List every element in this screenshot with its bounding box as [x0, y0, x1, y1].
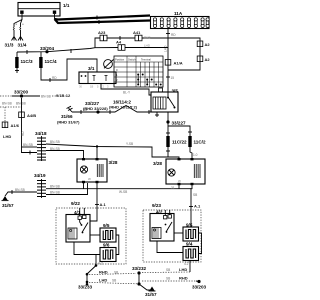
wire relay 4/2 bottom to 9/4 [157, 241, 183, 253]
svg-text:SB: SB [166, 268, 170, 272]
light switch 3/1 [79, 66, 116, 89]
svg-text:Switch: Switch [128, 58, 136, 62]
wire box B pin2 down (net A1 right) [189, 185, 201, 227]
svg-text:A2: A2 [205, 42, 211, 47]
svg-text:A.2: A.2 [98, 262, 103, 266]
svg-text:9/5: 9/5 [103, 223, 110, 228]
svg-text:15: 15 [171, 76, 175, 80]
svg-text:A41: A41 [133, 30, 141, 35]
svg-text:11A: 11A [174, 11, 183, 16]
svg-text:A4: A4 [116, 40, 122, 45]
wire BN-SB dashed row left [0, 98, 26, 112]
svg-text:W-SB: W-SB [119, 190, 127, 194]
svg-text:31: 31 [171, 186, 175, 190]
dashed module 9/22 [56, 201, 126, 264]
wire relay 4/1 to 9/5 left [90, 234, 100, 236]
connector A2 upper [197, 41, 210, 47]
svg-text:33/232: 33/232 [132, 266, 146, 271]
fuses [153, 18, 209, 28]
wire switch 3/1 to relay coil (BL-Y) [101, 83, 152, 95]
ground 31/66 [57, 106, 80, 124]
warning lamp box B 3/28 [153, 158, 205, 185]
svg-text:A1/A: A1/A [174, 61, 183, 66]
wire relay 4/2 to 9/5 right [174, 232, 183, 234]
svg-text:RD: RD [171, 33, 176, 37]
svg-text:BN-SB: BN-SB [23, 143, 33, 147]
relay 4/2 [150, 210, 174, 242]
svg-text:RD: RD [52, 76, 57, 80]
lamp symbol [168, 169, 175, 176]
svg-text:9/4: 9/4 [186, 242, 193, 247]
svg-text:31/3: 31/3 [5, 43, 14, 48]
wire 33/200 row [0, 93, 71, 99]
svg-text:34/18: 34/18 [35, 131, 47, 136]
connector A23 [98, 30, 107, 41]
wire box A pin to 34/19 (lower) [46, 183, 88, 195]
svg-text:A1/6: A1/6 [11, 123, 20, 128]
svg-text:LHD: LHD [99, 277, 107, 282]
svg-text:9/6: 9/6 [103, 243, 110, 248]
bars element [194, 164, 200, 178]
svg-text:BN-SB: BN-SB [2, 102, 12, 106]
svg-text:31/57: 31/57 [145, 292, 157, 297]
wire fuse output RD down [164, 29, 177, 52]
node 33/204 [40, 46, 54, 53]
svg-text:1.0: 1.0 [193, 153, 198, 157]
svg-text:4.2: 4.2 [184, 262, 189, 266]
svg-text:SB: SB [114, 271, 118, 275]
svg-text:A2: A2 [205, 57, 211, 62]
lamp symbol [80, 166, 87, 173]
heated element 9/6 left [100, 243, 116, 262]
dashed row left RHD [89, 269, 136, 274]
relay coil bottom stub [155, 112, 159, 117]
ground 31/57 bottom [139, 284, 157, 297]
svg-text:3/28: 3/28 [109, 160, 118, 165]
wire battery feed to fuse box (thick) [55, 14, 151, 24]
svg-text:A.1: A.1 [100, 202, 107, 207]
wire node to 11C/2 branch [168, 126, 192, 136]
connector A4/B [19, 112, 37, 118]
svg-text:BN-SB: BN-SB [41, 95, 51, 99]
svg-text:LHD: LHD [179, 267, 187, 272]
relay 3/5 [151, 88, 178, 112]
dashed row right RHD [142, 276, 196, 282]
wire 9/4 bottom down [184, 261, 190, 273]
ground 31/4 [18, 37, 27, 48]
wire T-drop to box A pin2 [96, 147, 98, 160]
svg-text:33/233: 33/233 [78, 285, 92, 290]
connector A1/6 with dashed feed [2, 107, 20, 128]
svg-text:3/5: 3/5 [172, 89, 179, 94]
svg-text:1/1: 1/1 [63, 3, 70, 8]
wire A1 into relay 4/1 [90, 216, 97, 221]
label 16/114:2 [109, 100, 138, 110]
ground 31/3 [5, 37, 17, 48]
wire battery to ground fork [13, 14, 24, 37]
svg-text:LHD: LHD [164, 45, 168, 52]
node 33/227 (left) [83, 101, 108, 114]
wire ground bus to relay 3/5 [72, 106, 157, 115]
connector A1/A [165, 48, 183, 66]
svg-text:31/57: 31/57 [2, 203, 14, 208]
svg-text:SB: SB [112, 279, 116, 283]
svg-text:9/22: 9/22 [71, 201, 80, 206]
switch position table [114, 56, 163, 87]
svg-text:33/200: 33/200 [14, 90, 28, 95]
svg-text:Position: Position [115, 58, 125, 62]
connector 11C/22 [166, 133, 187, 157]
connector 34/19 (ladder) [34, 173, 46, 198]
svg-text:BL-Y: BL-Y [123, 91, 131, 95]
svg-text:1B: 1B [90, 85, 93, 89]
connector A2 lower [197, 56, 210, 62]
svg-text:3/28: 3/28 [153, 161, 162, 166]
svg-text:11C/22: 11C/22 [172, 140, 187, 145]
wire main vertical to relay [166, 65, 174, 92]
svg-text:BN-SB: BN-SB [16, 102, 26, 106]
svg-text:A.1: A.1 [194, 204, 201, 209]
node 33/203 [192, 280, 206, 290]
connector 11C/4 [39, 52, 57, 68]
dashed row right LHD [142, 267, 190, 273]
svg-text:33/203: 33/203 [192, 285, 206, 290]
svg-text:RHD: RHD [99, 269, 108, 274]
svg-text:BN-SB: BN-SB [50, 185, 60, 189]
svg-text:Y-SB: Y-SB [126, 142, 133, 146]
wire box B pin1 to ground bus [171, 185, 179, 190]
node 33/233 [78, 273, 92, 290]
svg-text:BN-SB: BN-SB [50, 140, 60, 144]
wire 34/18 to lamp box A (Y-SB) [46, 140, 179, 159]
connector 34/18 (ladder) [35, 131, 47, 161]
relay 4/1 [66, 208, 90, 242]
wire between A2s [199, 47, 201, 56]
wire series link right elements [199, 233, 202, 254]
svg-text:11C/4: 11C/4 [45, 59, 57, 64]
svg-text:33/227: 33/227 [172, 121, 186, 126]
svg-text:RHD: RHD [144, 36, 151, 40]
svg-text:A23: A23 [98, 30, 106, 35]
heated element 9/5 right [183, 223, 199, 242]
wire box A pin2 down (net A1) [95, 183, 107, 216]
wire RHD branch [95, 36, 200, 48]
node 33/232 [132, 266, 146, 286]
heated element 9/4 right [183, 242, 199, 261]
svg-text:(RHD 33/228): (RHD 33/228) [83, 106, 108, 111]
connector 11C/3 [15, 52, 33, 73]
wire A2 tap down [87, 255, 103, 285]
connector 11C/2 [188, 136, 206, 159]
svg-text:RD: RD [21, 131, 25, 136]
wire series link left elements [116, 235, 119, 255]
warning lamp box A 3/28 [77, 158, 118, 183]
node 33/200 [14, 90, 28, 98]
fuse box 11A [151, 11, 210, 29]
svg-text:(RHD 31/67): (RHD 31/67) [57, 120, 80, 125]
svg-text:BN-SB: BN-SB [50, 191, 60, 195]
battery 1/1 [18, 3, 70, 17]
svg-text:9/23: 9/23 [152, 203, 161, 208]
wire LHD branch [95, 44, 168, 48]
switch knob symbol [104, 60, 114, 69]
svg-text:SB: SB [166, 277, 170, 281]
svg-text:LHD: LHD [144, 44, 151, 48]
svg-text:34/19: 34/19 [34, 173, 46, 178]
bars element [97, 164, 103, 177]
svg-text:9/1B:12: 9/1B:12 [56, 93, 71, 98]
connector A41 [133, 30, 151, 41]
svg-text:11C/2: 11C/2 [194, 140, 206, 145]
wire A4/B down to 34/18 [3, 118, 37, 155]
wire 34/19 to ground [5, 188, 37, 196]
svg-text:31/66: 31/66 [61, 114, 73, 119]
wire relay 4/1 bottom to 9/6 [74, 242, 100, 255]
wire A2 return to main vertical [168, 62, 200, 70]
svg-text:Terminal: Terminal [141, 58, 151, 62]
wire 11C/4 to switch 3/1 [41, 59, 97, 82]
wire 34/18 to lamp box A pin1 [46, 147, 84, 159]
svg-text:BN-SB: BN-SB [15, 188, 25, 192]
svg-text:31/4: 31/4 [18, 43, 27, 48]
dashed module 9/23 [143, 203, 201, 262]
svg-text:BN-SB: BN-SB [50, 147, 60, 151]
wire ground bus to 34/19 (upper) [46, 183, 191, 194]
svg-text:W: W [88, 177, 91, 181]
svg-text:RHD: RHD [179, 276, 188, 281]
wire main feed horizontal [17, 48, 95, 54]
dashed row left LHD [89, 277, 137, 284]
svg-text:SB: SB [193, 193, 197, 197]
svg-text:11C/3: 11C/3 [21, 59, 33, 64]
ground 31/57 left [2, 196, 14, 208]
svg-text:W: W [178, 179, 181, 183]
svg-text:(RHD 16/115:2): (RHD 16/115:2) [109, 105, 138, 110]
heated element 9/5 left [100, 223, 116, 242]
svg-text:A4/B: A4/B [27, 113, 36, 118]
node 33/227 right [166, 112, 186, 136]
svg-text:LHD: LHD [3, 134, 11, 139]
connector A4 [116, 40, 125, 51]
svg-text:3/1: 3/1 [88, 66, 95, 71]
